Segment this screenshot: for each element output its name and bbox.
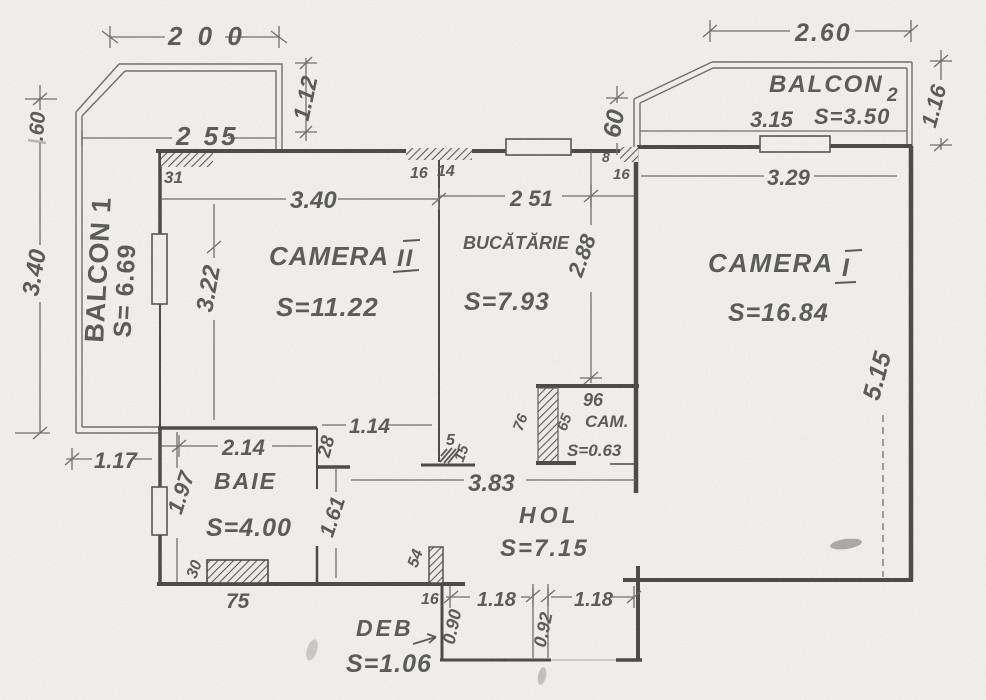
dim 3.22 bbox=[213, 204, 215, 258]
balcon2 left wall bbox=[633, 99, 635, 148]
dim 2.60 balcon2 bbox=[710, 30, 790, 32]
window baie left bbox=[152, 487, 167, 535]
room labels bbox=[79, 71, 898, 678]
camera II left wall upper bbox=[158, 151, 162, 234]
dim 2.55 bbox=[82, 137, 172, 139]
dim 3.83 bbox=[351, 479, 464, 481]
dim 1.18 first bbox=[446, 596, 470, 598]
balcon2 diagonal bbox=[634, 62, 712, 99]
deb dim verticals bbox=[532, 584, 534, 658]
dim .60 balcon2 left bbox=[616, 86, 618, 103]
faint smudge left of deb bbox=[304, 638, 320, 662]
window camera I top bbox=[760, 136, 830, 152]
camera II left wall lower bbox=[159, 304, 161, 429]
dim 1.12 bbox=[305, 58, 307, 141]
ground line under door bbox=[421, 464, 475, 467]
left column: vertical dim line bbox=[39, 85, 41, 110]
dim 2.51 bbox=[439, 195, 505, 197]
hatch 8/16 near wall 636 bbox=[620, 147, 638, 162]
dim 1.17 bbox=[66, 458, 92, 460]
balcony1 left wall bbox=[75, 112, 77, 433]
dim 1.18 second bbox=[551, 596, 572, 598]
hatch 54 hol bottom bbox=[429, 547, 443, 583]
dim 1.14 bbox=[322, 424, 346, 426]
dim 2.88 bbox=[590, 151, 592, 225]
door hatch baie entry (x439 wall bottom) bbox=[440, 448, 459, 463]
hatch 16/14 top of wall 439 bbox=[406, 148, 472, 160]
dim 3.40 camera II bbox=[161, 198, 286, 200]
baie left wall lower bbox=[158, 535, 162, 584]
dim 5.15 dashed bbox=[882, 415, 884, 577]
cam hatched band bbox=[538, 388, 558, 462]
right wall bbox=[909, 146, 914, 581]
faint smudge below deb bbox=[536, 666, 548, 685]
balcon2 inner bottom edge / 3.15 line bbox=[640, 130, 907, 132]
balcony1 bottom bbox=[76, 432, 160, 434]
camera I bottom wall bbox=[623, 578, 913, 582]
top wall camera II + bucatarie bbox=[156, 149, 506, 153]
balcon2 top bbox=[712, 61, 912, 63]
dim 1.16 right bbox=[940, 50, 942, 80]
dim 2.14 bbox=[161, 445, 218, 447]
top wall camera I bbox=[637, 145, 762, 149]
dim 1.97 bbox=[176, 432, 178, 468]
hatch window 75 baie bottom bbox=[207, 560, 268, 583]
dim 1.61 bbox=[335, 469, 337, 492]
deb arrow bbox=[413, 637, 436, 644]
faint dash top left margin bbox=[28, 140, 46, 143]
hol / camera I wall lower bbox=[636, 566, 640, 659]
window bucatarie top bbox=[506, 139, 571, 155]
baie top wall bbox=[158, 426, 317, 430]
balcony1 diagonal corner bbox=[76, 64, 119, 112]
deb left wall bbox=[441, 583, 444, 661]
baie left wall upper bbox=[158, 429, 162, 487]
hatch 31 top-left corner bbox=[161, 153, 213, 167]
dim 3.29 bbox=[641, 175, 764, 177]
balcony1 top rect outer bbox=[76, 64, 282, 433]
hol bottom wall bbox=[157, 582, 465, 586]
deb bottom wall bbox=[440, 659, 551, 662]
smudge mark camera I bbox=[829, 537, 862, 551]
balcon2 right wall bbox=[911, 62, 913, 147]
cam bottom wall bbox=[536, 461, 576, 465]
cam top wall bbox=[536, 384, 639, 388]
window left camera II bbox=[152, 234, 167, 304]
wall camera II / bucatarie bbox=[438, 151, 440, 462]
dim 2.00 top bbox=[110, 36, 165, 38]
door jamb T bbox=[317, 465, 350, 469]
bucatarie / camera I wall bbox=[634, 147, 639, 493]
